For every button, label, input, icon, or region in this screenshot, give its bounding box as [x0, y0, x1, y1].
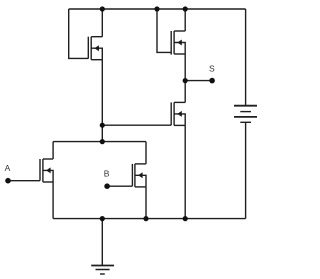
svg-text:S: S [209, 63, 215, 73]
svg-text:B: B [104, 169, 110, 179]
svg-text:A: A [5, 163, 11, 173]
